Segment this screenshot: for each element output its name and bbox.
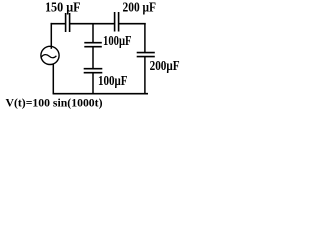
wire left vertical from top wire down to source [50,23,52,49]
wire below source down to bottom wire [52,64,54,94]
svg-text:200μF: 200μF [150,58,180,73]
wire middle branch lower vertical to bottom wire [92,73,94,94]
AC source V1 circle [41,46,59,64]
wire top-left segment from source corner to C1 left plate [51,23,66,25]
capacitor C2 200uF plates [115,12,119,32]
wire top right segment from C2 to right branch corner [119,23,146,25]
capacitor C1 150uF plates [66,13,70,32]
AC source V1 sine wave [41,55,56,58]
wire middle branch upper vertical from top wire node [92,23,94,43]
wire top middle segment from C1 to C2 [70,23,115,25]
svg-text:V(t)=100 sin(1000t): V(t)=100 sin(1000t) [6,97,103,109]
capacitor C5 200uF plates [137,53,155,57]
bottom wire [53,93,148,95]
wire right branch upper vertical [144,23,146,53]
svg-text:200 μF: 200 μF [123,0,157,14]
wire middle branch between C3 and C4 [92,47,94,69]
wire right branch lower vertical to bottom wire [144,57,146,94]
svg-text:100μF: 100μF [98,73,128,88]
capacitor C4 100uF plates [84,69,103,73]
svg-text:100μF: 100μF [103,33,132,48]
capacitor C3 100uF plates [84,43,102,47]
svg-text:150 μF: 150 μF [45,0,81,14]
